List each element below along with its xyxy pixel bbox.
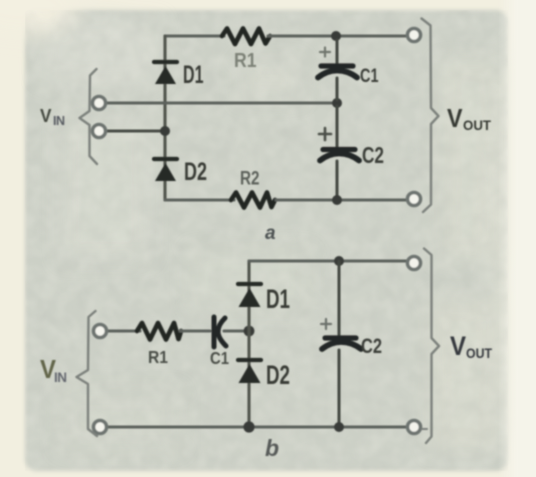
svg-text:b: b bbox=[265, 435, 279, 461]
wire C1 to diode node (b) bbox=[224, 329, 246, 332]
wire top rail right segment (a) bbox=[268, 34, 410, 37]
svg-text:V: V bbox=[40, 106, 52, 126]
node junction bottom C2 (a) bbox=[332, 195, 342, 205]
wire Vin+ to cap junction (a) bbox=[104, 101, 336, 104]
wire bottom rail left (a) bbox=[165, 198, 234, 201]
resistor R1 (b) bbox=[137, 323, 181, 340]
svg-text:D2: D2 bbox=[184, 158, 207, 186]
brace Vin (a) bbox=[80, 69, 98, 164]
svg-text:D2: D2 bbox=[266, 360, 290, 390]
node junction diodes (a) bbox=[160, 126, 170, 136]
terminal top-right (b) bbox=[408, 257, 421, 270]
svg-text:a: a bbox=[265, 223, 276, 244]
terminal Vin top (b) bbox=[94, 325, 107, 338]
svg-text:R2: R2 bbox=[240, 168, 260, 190]
wire bottom rail (b) bbox=[104, 425, 410, 428]
terminal bottom-right (a) bbox=[408, 193, 421, 206]
svg-text:OUT: OUT bbox=[463, 118, 492, 133]
node junction diodes (b) bbox=[244, 326, 255, 337]
terminal Vin bottom (b) bbox=[94, 421, 107, 434]
terminal Vin top (a) bbox=[93, 97, 106, 110]
terminal Vin bottom (a) bbox=[93, 125, 106, 138]
wire input top (b) bbox=[104, 329, 140, 332]
wire top rail (b) bbox=[249, 259, 410, 262]
node junction C2 bottom (b) bbox=[334, 422, 344, 432]
wire top rail left segment (a) bbox=[165, 34, 224, 37]
resistor R2 (a) bbox=[231, 193, 275, 208]
svg-text:IN: IN bbox=[54, 370, 67, 385]
plus sign C2 (b) bbox=[321, 319, 331, 329]
resistor R1 (a) bbox=[222, 29, 270, 45]
node junction diode bottom (b) bbox=[243, 421, 254, 432]
node junction top C2 (b) bbox=[334, 256, 344, 266]
wire R1 to C1 (b) bbox=[180, 329, 210, 332]
diode D2 (b) bbox=[238, 360, 261, 383]
capacitor C1 (a) bbox=[318, 40, 357, 100]
brace Vout (b) bbox=[424, 249, 439, 444]
svg-text:C1: C1 bbox=[210, 348, 229, 368]
svg-text:C2: C2 bbox=[361, 335, 382, 358]
wire diode branch vertical (a) bbox=[163, 36, 166, 200]
plus sign C2 (a) bbox=[319, 128, 331, 140]
terminal bottom-right (b) bbox=[408, 421, 421, 434]
svg-text:D1: D1 bbox=[183, 61, 204, 89]
svg-text:R1: R1 bbox=[148, 347, 168, 367]
node junction mid caps (a) bbox=[332, 98, 342, 108]
svg-text:OUT: OUT bbox=[466, 346, 493, 361]
svg-text:V: V bbox=[447, 103, 463, 133]
terminal top-right (a) bbox=[408, 29, 421, 42]
svg-text:C1: C1 bbox=[360, 65, 379, 87]
plus sign C1 (a) bbox=[320, 48, 330, 57]
svg-text:D1: D1 bbox=[266, 284, 290, 314]
brace Vout (a) bbox=[422, 19, 439, 213]
capacitor C2 (a) bbox=[320, 106, 359, 197]
diode D2 (a) bbox=[154, 159, 177, 181]
svg-text:IN: IN bbox=[53, 114, 65, 128]
diode D1 (a) bbox=[154, 62, 177, 84]
wire Vin- to diode junction (a) bbox=[104, 130, 165, 133]
svg-text:C2: C2 bbox=[362, 142, 384, 168]
wire bottom rail right (a) bbox=[276, 198, 410, 201]
node junction top C1 (a) bbox=[331, 31, 341, 41]
svg-text:V: V bbox=[450, 331, 466, 361]
capacitor C1 (b) bbox=[214, 317, 226, 347]
right margin fade bbox=[498, 0, 520, 477]
wire diode branch vertical (b) bbox=[247, 261, 250, 427]
capacitor C2 (b) bbox=[322, 261, 361, 424]
minus mark at Vout bottom terminal (b) bbox=[422, 428, 427, 430]
diode D1 (b) bbox=[238, 284, 261, 307]
brace Vin (b) bbox=[77, 311, 98, 436]
svg-text:R1: R1 bbox=[234, 49, 257, 72]
